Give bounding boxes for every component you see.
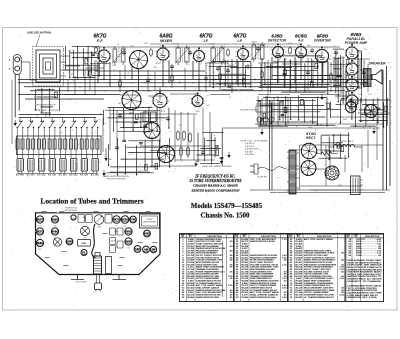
resistor R22 <box>346 90 349 99</box>
svg-text:5: 5 <box>250 54 251 56</box>
svg-text:.002: .002 <box>260 79 264 81</box>
svg-text:3: 3 <box>313 53 314 55</box>
wire plate feed upper <box>95 70 205 72</box>
svg-text:AVC: AVC <box>117 102 122 105</box>
oscillator coil L2 <box>16 131 24 158</box>
2nd IF transformer T3 can <box>210 45 225 65</box>
wire left horizontal low <box>12 143 60 145</box>
resistor R5 <box>261 70 264 79</box>
wire tube drop <box>277 58 279 84</box>
svg-text:6K7G: 6K7G <box>161 111 166 113</box>
resistor R11 <box>180 146 183 157</box>
chassis tube pos9 <box>144 230 151 237</box>
wire trimmer bank top bus <box>19 117 96 119</box>
svg-text:5: 5 <box>358 107 359 109</box>
svg-text:B.C. OSC: B.C. OSC <box>91 175 100 177</box>
svg-text:2ND IF: 2ND IF <box>111 241 116 243</box>
svg-text:.0001: .0001 <box>112 65 117 67</box>
resistor R1 <box>89 69 92 78</box>
oscillator coil L9 <box>91 131 99 158</box>
svg-text:DESCRIPTION: DESCRIPTION <box>365 236 380 238</box>
resistor R15 <box>289 46 292 55</box>
svg-text:.01: .01 <box>285 59 288 61</box>
wire right horiz 4 <box>222 127 380 129</box>
capacitor C9 <box>146 78 150 83</box>
svg-text:5: 5 <box>171 54 172 56</box>
capacitor C7 <box>216 66 220 71</box>
wire left horizontal 99 <box>25 98 104 100</box>
svg-text:ERROR BY 10%.: ERROR BY 10%. <box>348 297 379 299</box>
svg-text:SPKR. FIELD: SPKR. FIELD <box>341 141 354 143</box>
svg-text:5Y4G: 5Y4G <box>356 255 362 257</box>
svg-text:WAVE BAND SW.: WAVE BAND SW. <box>258 123 272 126</box>
chassis box small <box>105 215 112 224</box>
svg-text:PL: PL <box>82 251 86 254</box>
wire junction dots <box>59 79 352 92</box>
svg-text:CHASSIS HAS8S9 A.C. 3BAND: CHASSIS HAS8S9 A.C. 3BAND <box>193 184 238 188</box>
svg-text:6A8: 6A8 <box>144 42 147 45</box>
wire tube drop <box>357 53 359 83</box>
svg-text:TRANSFORMER: TRANSFORMER <box>143 221 157 224</box>
speaker SP1 cone <box>371 70 382 85</box>
resistor R12 <box>187 146 190 157</box>
svg-text:455: 455 <box>221 60 224 63</box>
resistor R13 <box>150 48 153 57</box>
svg-text:22-984: 22-984 <box>241 297 249 299</box>
svg-text:.05: .05 <box>127 73 130 75</box>
electrolytic capacitor C20 can <box>351 176 364 195</box>
chassis caption flecks <box>41 211 157 266</box>
svg-text:I.F.: I.F. <box>203 39 208 43</box>
capacitor C5 <box>334 50 338 55</box>
band switch S2 section 3 <box>38 118 45 132</box>
svg-text:.05: .05 <box>117 44 120 46</box>
tube V13 6X5 socket <box>343 98 359 116</box>
tube V8 6V6G <box>344 44 361 63</box>
resistor R2 <box>119 79 122 88</box>
svg-text:‘POLICE’ POSITION: ‘POLICE’ POSITION <box>107 179 126 181</box>
svg-text:.02: .02 <box>333 46 336 48</box>
svg-text:250: 250 <box>184 61 188 63</box>
svg-text:B.C. OSC: B.C. OSC <box>27 175 36 177</box>
svg-text:8: 8 <box>279 60 280 62</box>
wire tube drop <box>103 62 105 80</box>
trimmer capacitor C31 <box>27 159 36 177</box>
band switch S2 section 6 <box>70 118 77 132</box>
capacitor C12 <box>306 70 310 75</box>
chassis IF can boxes 2 <box>110 238 124 253</box>
wire tube drop <box>294 57 296 83</box>
wire detector feed <box>230 67 292 69</box>
trimmer capacitor C33 <box>48 159 57 177</box>
grid cap lead <box>159 88 161 94</box>
label V7 6F8G INVERTER <box>314 33 331 42</box>
oscillator coil L8 <box>80 131 88 158</box>
chassis tube 6A8G pos2 <box>51 216 58 223</box>
capacitor C10 <box>204 76 208 81</box>
wire tube drop <box>300 58 302 80</box>
parts table frame <box>180 234 384 302</box>
svg-text:AM: AM <box>144 248 148 251</box>
svg-text:RECT.: RECT. <box>306 136 316 140</box>
svg-text:250V: 250V <box>357 94 363 96</box>
speaker output wiring mesh <box>348 98 389 128</box>
trimmer capacitor C34 <box>59 159 68 177</box>
svg-text:6V6G: 6V6G <box>52 230 58 233</box>
parts table header row <box>180 233 384 238</box>
svg-text:4-B MIDPOINT: 4-B MIDPOINT <box>245 148 260 151</box>
waveband switch S1 <box>257 117 274 126</box>
tube V3b 6K7G IF bottom <box>151 90 170 111</box>
svg-text:3: 3 <box>235 51 236 53</box>
svg-text:8: 8 <box>244 62 245 64</box>
wire tube drop <box>97 62 99 83</box>
svg-text:B.C. OSC: B.C. OSC <box>48 175 57 177</box>
svg-text:ON-OFF SW.: ON-OFF SW. <box>257 177 268 179</box>
detector AF wiring cluster <box>258 58 370 95</box>
ground detector <box>194 161 198 167</box>
svg-text:G: G <box>9 69 11 71</box>
wire right horiz 1 <box>358 112 390 114</box>
svg-text:B+: B+ <box>329 81 331 83</box>
wire tube drop <box>109 62 111 87</box>
wire tube drop <box>357 80 359 85</box>
svg-text:3: 3 <box>155 51 156 53</box>
band switch S2 section 1 <box>17 118 24 132</box>
wire right bus 3 <box>389 80 391 186</box>
svg-text:DESCRIPTION: DESCRIPTION <box>317 236 332 238</box>
wire ground lead down <box>18 75 20 111</box>
svg-text:5: 5 <box>205 101 206 103</box>
svg-text:8: 8 <box>164 62 165 64</box>
svg-text:8: 8 <box>105 64 106 66</box>
svg-text:AVC: AVC <box>95 60 100 63</box>
wire top rail <box>92 46 340 48</box>
chassis power plug <box>95 275 102 292</box>
svg-text:IF FREQUENCY 455 KC.: IF FREQUENCY 455 KC. <box>194 175 235 179</box>
tube V2b 6A8G mixer bottom <box>121 90 141 110</box>
wire left horizontal 94 <box>18 94 120 96</box>
resistor R8 <box>177 130 180 141</box>
svg-text:TRIM: TRIM <box>97 227 102 229</box>
svg-text:5: 5 <box>169 101 170 103</box>
wire output bus right <box>300 75 342 77</box>
chassis dial cord curve <box>92 224 96 258</box>
tube V3 6K7G 1st IF <box>191 47 207 65</box>
svg-text:6-B GRID: 6-B GRID <box>245 154 255 156</box>
parts table group 2 rows <box>236 234 287 302</box>
chassis outline <box>36 213 161 275</box>
label V12 5Y4G RECT. <box>306 131 316 140</box>
svg-text:6V6G: 6V6G <box>125 240 131 243</box>
capacitor C11 <box>226 68 230 73</box>
svg-text:1 MEG: 1 MEG <box>293 67 299 69</box>
chassis ant coil boxes <box>78 215 92 223</box>
svg-text:ANTENNA SWITCH: ANTENNA SWITCH <box>36 104 56 107</box>
svg-text:8: 8 <box>200 64 201 66</box>
tube V9 6V6G <box>344 60 361 79</box>
wire tube drop <box>138 69 140 92</box>
filter network mesh <box>319 132 350 160</box>
svg-text:BAND SWITCH SHOWN IN: BAND SWITCH SHOWN IN <box>103 175 129 178</box>
svg-text:SPEAKER: SPEAKER <box>368 62 386 66</box>
svg-text:6J5G: 6J5G <box>195 111 200 113</box>
wire left edge vertical <box>11 80 13 144</box>
svg-text:5Y4G: 5Y4G <box>130 218 136 221</box>
tube V10 6V6G <box>344 76 361 95</box>
svg-text:5: 5 <box>112 56 113 58</box>
band switch S2 section 7 <box>81 118 88 132</box>
RF coil T1 can <box>112 46 126 65</box>
svg-text:SHIELDED ANTENNA: SHIELDED ANTENNA <box>27 32 52 35</box>
chassis circle captions <box>39 225 131 251</box>
label V4 6K7G I.F. <box>233 33 246 42</box>
2nd detector wiring cluster <box>105 108 215 172</box>
svg-text:1ST IF: 1ST IF <box>173 44 179 46</box>
wire trimmer bank top bus b <box>19 114 103 116</box>
svg-text:3: 3 <box>190 98 191 100</box>
svg-text:B.C. OSC: B.C. OSC <box>37 175 46 177</box>
chassis tube pos8 <box>125 228 132 235</box>
6V6 cathode rail box <box>358 51 362 103</box>
ground near note <box>220 158 224 164</box>
wire AVC bus <box>18 82 368 84</box>
wire bottom return 2 <box>270 192 385 194</box>
chassis tube pos6 <box>36 228 43 235</box>
label V3 6K7G I.F. <box>199 33 212 42</box>
tube V12a 5Y4G rectifier <box>301 143 318 160</box>
wire right bus 2 <box>386 66 388 190</box>
svg-text:5: 5 <box>330 56 331 58</box>
tube V15 6H6 socket <box>144 122 161 139</box>
svg-text:B.C. OSC: B.C. OSC <box>70 175 79 177</box>
parts table group 4 price list <box>349 239 382 257</box>
svg-text:.1: .1 <box>266 46 268 48</box>
svg-text:455KC: 455KC <box>229 64 235 67</box>
capacitor C15 <box>115 145 119 150</box>
capacitor C18 <box>166 116 170 121</box>
capacitor C8 <box>246 64 250 69</box>
bass compensation mesh <box>196 129 223 166</box>
oscillator coil L4 <box>37 131 45 158</box>
svg-text:8: 8 <box>353 109 354 111</box>
svg-text:3RD IF: 3RD IF <box>251 42 258 44</box>
chassis trimmer small <box>71 215 76 220</box>
RF input wiring mesh <box>64 46 100 79</box>
wire tube drop <box>192 61 194 79</box>
trimmer capacitor C35 <box>70 159 79 177</box>
wire tube drop <box>236 59 238 83</box>
capacitor C2 <box>188 50 192 55</box>
wire trimmer right drop <box>101 118 103 153</box>
chassis tube pos11 <box>66 238 73 245</box>
antenna coil L1 shield <box>33 47 64 87</box>
wire tube drop <box>131 66 133 80</box>
capacitor C6 <box>170 64 174 69</box>
tube V14 socket <box>364 104 378 118</box>
wire tube drop <box>345 69 347 87</box>
svg-text:250M: 250M <box>287 43 293 45</box>
svg-text:5: 5 <box>360 101 361 103</box>
wire left edge vertical 2 <box>14 126 16 144</box>
wire tube drop <box>168 60 170 83</box>
wire tube drop <box>162 60 164 87</box>
svg-text:CARBON RESISTOR 2 MEG.: CARBON RESISTOR 2 MEG. <box>196 296 220 299</box>
svg-text:A: A <box>8 60 11 62</box>
label shielded antenna <box>27 32 52 47</box>
wire inverter feed vertical pair <box>270 100 273 190</box>
svg-text:DESCRIPTION: DESCRIPTION <box>261 236 276 238</box>
oscillator coil L6 <box>59 131 67 158</box>
svg-text:B.C.: B.C. <box>68 99 72 101</box>
resistor R6 <box>284 68 287 77</box>
chassis tube 6K7G pos1 <box>36 216 43 223</box>
svg-text:DENOTES CHASSIS ‘GROUND’: DENOTES CHASSIS ‘GROUND’ <box>202 165 232 168</box>
parts table column rules <box>187 234 361 302</box>
svg-text:Chassis No. 1500: Chassis No. 1500 <box>201 213 251 220</box>
tube V17 socket bottom right <box>325 166 339 180</box>
svg-text:5: 5 <box>360 53 361 55</box>
wire B+ bus <box>18 79 372 81</box>
svg-text:R.F.: R.F. <box>97 39 104 43</box>
svg-text:OUT: OUT <box>127 248 130 250</box>
label V1 6K7G R.F. <box>93 33 106 42</box>
wire trimmer bank top bus 2 <box>15 117 103 119</box>
tube V2 6A8G mixer <box>155 45 172 64</box>
svg-text:3: 3 <box>344 50 345 52</box>
resistor R3 <box>171 74 174 83</box>
resistor R9 <box>183 130 186 141</box>
wire tube drop <box>198 62 200 92</box>
wire bottom return <box>250 189 390 191</box>
wire power cluster <box>300 118 384 190</box>
wire right bus 1 <box>382 70 384 190</box>
svg-text:ANT. COIL SHORT WAVE: ANT. COIL SHORT WAVE <box>304 238 333 241</box>
chassis tube pos7 <box>51 228 58 235</box>
svg-text:VOLUME CONTROL: VOLUME CONTROL <box>240 110 259 112</box>
chassis trimmer cross 2 <box>53 238 61 246</box>
chassis tube pos14 <box>143 246 150 253</box>
chassis side rect <box>106 257 112 274</box>
wire tube drop <box>271 57 273 80</box>
wire screen bus <box>24 86 360 88</box>
svg-text:6A8G: 6A8G <box>52 218 59 221</box>
wire right horiz 2 <box>330 116 387 118</box>
svg-text:2M: 2M <box>328 59 332 61</box>
svg-text:.1: .1 <box>188 73 190 75</box>
wire antenna lead down <box>14 75 16 118</box>
svg-text:250V: 250V <box>93 67 99 69</box>
wire top rail 2 <box>150 43 300 45</box>
svg-text:I.F. TRANSFORMER 455 KC: I.F. TRANSFORMER 455 KC <box>304 296 335 299</box>
svg-text:PILOT LAMP: PILOT LAMP <box>76 280 87 283</box>
trimmer capacitor C32 <box>37 159 46 177</box>
svg-text:I.F.: I.F. <box>237 39 242 43</box>
tube V4 6K7G 2nd IF <box>235 45 251 63</box>
AVC network mesh <box>104 107 170 133</box>
svg-text:MIXER: MIXER <box>160 39 172 43</box>
chassis IF can boxes <box>110 228 124 235</box>
trimmer bank frame <box>17 136 102 155</box>
parts table group dividers <box>234 234 347 302</box>
chassis tube pos16 <box>81 250 87 256</box>
tone control cluster <box>256 96 290 127</box>
resistor R7 <box>330 72 333 81</box>
svg-text:6K7G: 6K7G <box>37 218 44 221</box>
1st IF transformer T2 can <box>175 45 190 65</box>
svg-text:2-B 250 V.: 2-B 250 V. <box>244 143 255 145</box>
chassis tube pos15 <box>150 246 156 252</box>
wire tube drop <box>345 91 347 101</box>
svg-text:6K7G: 6K7G <box>37 230 44 233</box>
capacitor C17 <box>118 113 122 118</box>
label band switch police position <box>103 175 129 181</box>
svg-text:ZENITH RADIO CORPORATION: ZENITH RADIO CORPORATION <box>191 188 241 192</box>
IF stage wiring mesh <box>209 59 254 93</box>
svg-text:NOTE: 1-B-C +B VOLTAGES: NOTE: 1-B-C +B VOLTAGES <box>241 140 269 143</box>
capacitor C14 <box>143 123 147 128</box>
svg-text:.05: .05 <box>344 74 347 76</box>
svg-text:95-282: 95-282 <box>295 297 303 299</box>
svg-text:50M: 50M <box>341 57 345 59</box>
wire tube drop <box>242 60 244 88</box>
svg-text:6K7G: 6K7G <box>113 218 120 221</box>
resistor R16 <box>95 46 98 54</box>
capacitor C13 <box>362 70 366 75</box>
svg-text:5-B TAP: 5-B TAP <box>245 150 253 153</box>
svg-text:3: 3 <box>270 49 271 51</box>
3rd IF transformer T4 can <box>251 42 265 62</box>
trimmer capacitor C36 <box>80 159 89 177</box>
ground RF <box>102 170 106 176</box>
wire tube drop <box>327 62 329 80</box>
svg-text:'BROADCAST' POSITION: 'BROADCAST' POSITION <box>34 109 59 112</box>
2nd det IF can pair <box>143 112 156 126</box>
svg-text:285V: 285V <box>353 77 359 79</box>
svg-text:1ST IF: 1ST IF <box>114 231 119 233</box>
svg-text:SHOWN IN: SHOWN IN <box>41 107 52 109</box>
svg-text:5: 5 <box>206 56 207 58</box>
parts table group 1 rows <box>182 234 233 302</box>
svg-text:6A8G: 6A8G <box>129 112 134 115</box>
svg-text:6F8G: 6F8G <box>37 242 43 245</box>
svg-text:15 TUBE SUPERHETERODYNE: 15 TUBE SUPERHETERODYNE <box>189 179 242 183</box>
chassis tube pos4 <box>121 216 129 224</box>
resistor R10 <box>189 132 192 143</box>
svg-text:B.C. OSC: B.C. OSC <box>80 175 89 177</box>
ground speaker <box>372 128 376 134</box>
svg-text:2M: 2M <box>178 125 182 127</box>
AF stage wiring mesh <box>259 55 344 94</box>
band switch S2 section 4 <box>49 118 56 132</box>
parts table group 3 rows <box>290 234 345 302</box>
label V8-V11 6V6G PARALLEL POWER AMP <box>345 32 368 45</box>
chassis power transformer box <box>140 214 160 228</box>
svg-text:OSC: OSC <box>135 248 141 251</box>
svg-text:25M: 25M <box>152 67 157 69</box>
antenna loop coil L1 <box>36 50 70 82</box>
svg-text:SW: SW <box>151 248 156 251</box>
ground antenna <box>13 120 17 126</box>
svg-text:DETECTOR: DETECTOR <box>268 39 287 43</box>
resistor R20 <box>346 58 349 67</box>
ground bass <box>227 152 231 158</box>
power amp grid wiring mesh <box>333 49 346 105</box>
capacitor C16 <box>201 150 205 155</box>
capacitor C1 <box>122 50 126 55</box>
tube V6 6C5G AF <box>293 43 309 61</box>
svg-text:6V6G: 6V6G <box>144 232 150 235</box>
